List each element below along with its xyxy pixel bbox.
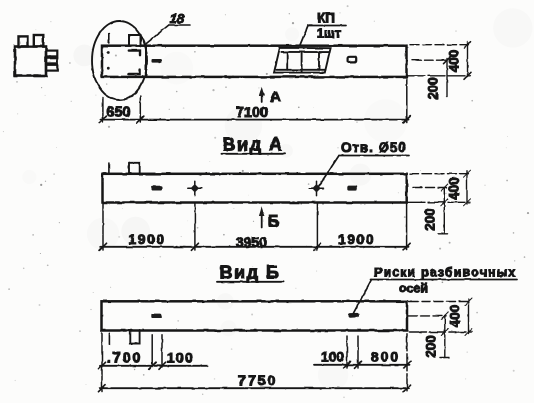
- embedded plate dash view1 left: [152, 59, 162, 63]
- beam body view 3: [102, 301, 408, 330]
- section arrow A: [259, 87, 281, 106]
- overall dimension line 7750: [100, 387, 409, 389]
- right dim group view 2: [408, 170, 471, 234]
- embedded plate dash view3 left: [151, 314, 162, 318]
- svg-text:Риски разбивочных: Риски разбивочных: [374, 266, 516, 280]
- dimension line view 1: [101, 119, 409, 121]
- svg-text:400: 400: [447, 177, 462, 200]
- svg-text:200: 200: [426, 77, 441, 100]
- svg-text:1шт: 1шт: [317, 26, 341, 41]
- embedded plate dash view2 left: [151, 186, 162, 191]
- title Vid B: [217, 263, 284, 283]
- title Vid A: [222, 135, 286, 155]
- detail circle (ellipse) around beam end: [92, 21, 147, 100]
- svg-text:650: 650: [106, 105, 130, 121]
- svg-text:800: 800: [371, 349, 400, 365]
- svg-text:Отв. Ø50: Отв. Ø50: [341, 140, 407, 155]
- svg-text:100: 100: [167, 350, 194, 366]
- tick marks view 3 dim: [99, 361, 411, 369]
- riska mark on beam 3: [348, 313, 359, 318]
- tick marks view 2: [100, 243, 411, 250]
- dimension line view 3 left segment: [100, 365, 208, 367]
- right dim group view 3: [408, 298, 472, 358]
- svg-text:КП: КП: [317, 11, 335, 26]
- stub below beam 3: [130, 330, 139, 344]
- embedded plate dash view2 right: [347, 186, 357, 191]
- dimension extension lines view 2: [102, 203, 104, 251]
- stub on top of beam 2: [129, 163, 140, 174]
- dimension extension lines view 3: [101, 333, 103, 392]
- svg-text:200: 200: [424, 335, 439, 358]
- hole marker 2 (cross): [310, 181, 324, 195]
- axis mark below beam 3 left: [108, 333, 110, 344]
- section arrow B: [259, 207, 280, 231]
- embedded mark lower inside end block: [129, 70, 140, 74]
- dimension line view 3 right segment: [314, 364, 410, 366]
- end block division line: [145, 45, 147, 76]
- svg-text:18: 18: [170, 11, 185, 26]
- label 18: [145, 11, 190, 45]
- right dim group view 1: [408, 41, 471, 100]
- hole marker 1 (cross): [188, 181, 202, 195]
- svg-text:1900: 1900: [338, 231, 375, 247]
- ticks 7750: [99, 385, 411, 392]
- axis mark above beam 2 left: [108, 163, 110, 174]
- svg-text:Б: Б: [268, 213, 280, 231]
- stub on top of beam 1: [129, 35, 141, 46]
- section symbol: column cross-section top-left: [15, 35, 57, 76]
- svg-text:200: 200: [423, 208, 438, 231]
- svg-text:400: 400: [448, 305, 463, 328]
- axis mark above beam 1 left: [108, 34, 110, 44]
- svg-text:7750: 7750: [238, 374, 277, 390]
- label Otv. O50: [319, 140, 410, 187]
- svg-text:осей: осей: [399, 282, 428, 296]
- KP component (parallelogram with ribs): [274, 48, 331, 73]
- svg-text:3950: 3950: [236, 234, 267, 250]
- beam body view 2: [103, 174, 407, 203]
- tick marks view 1: [99, 116, 410, 123]
- dimension extension lines view 1: [102, 98, 104, 123]
- embedded plate dash view1 right (hollow): [348, 57, 357, 63]
- svg-text:Вид Б: Вид Б: [220, 263, 281, 283]
- embedded mark upper inside end block: [129, 51, 140, 56]
- label riski razbivochnykh osey: [354, 266, 518, 314]
- dimension line view 2: [101, 246, 409, 248]
- dot marks inside end block: [107, 51, 110, 54]
- beam body view 1: [102, 46, 407, 77]
- label KP 1sht: [300, 11, 346, 46]
- svg-text:.700: .700: [107, 351, 142, 367]
- svg-text:400: 400: [447, 50, 462, 73]
- svg-text:А: А: [270, 89, 281, 106]
